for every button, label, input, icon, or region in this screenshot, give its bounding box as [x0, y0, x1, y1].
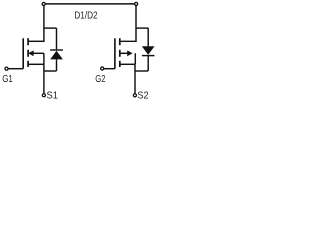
svg-text:D1/D2: D1/D2 — [74, 10, 97, 21]
svg-text:S2: S2 — [137, 91, 148, 102]
svg-text:G2: G2 — [95, 74, 105, 85]
svg-text:S1: S1 — [47, 91, 59, 102]
svg-text:G1: G1 — [2, 74, 13, 85]
